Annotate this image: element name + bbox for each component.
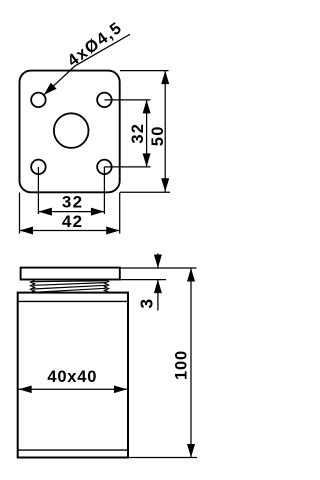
svg-text:32: 32 <box>62 193 84 212</box>
svg-text:42: 42 <box>62 212 84 231</box>
svg-text:100: 100 <box>173 350 191 380</box>
svg-text:40x40: 40x40 <box>47 368 97 386</box>
svg-text:50: 50 <box>149 125 167 146</box>
svg-text:32: 32 <box>129 123 147 144</box>
svg-text:3: 3 <box>137 299 157 309</box>
